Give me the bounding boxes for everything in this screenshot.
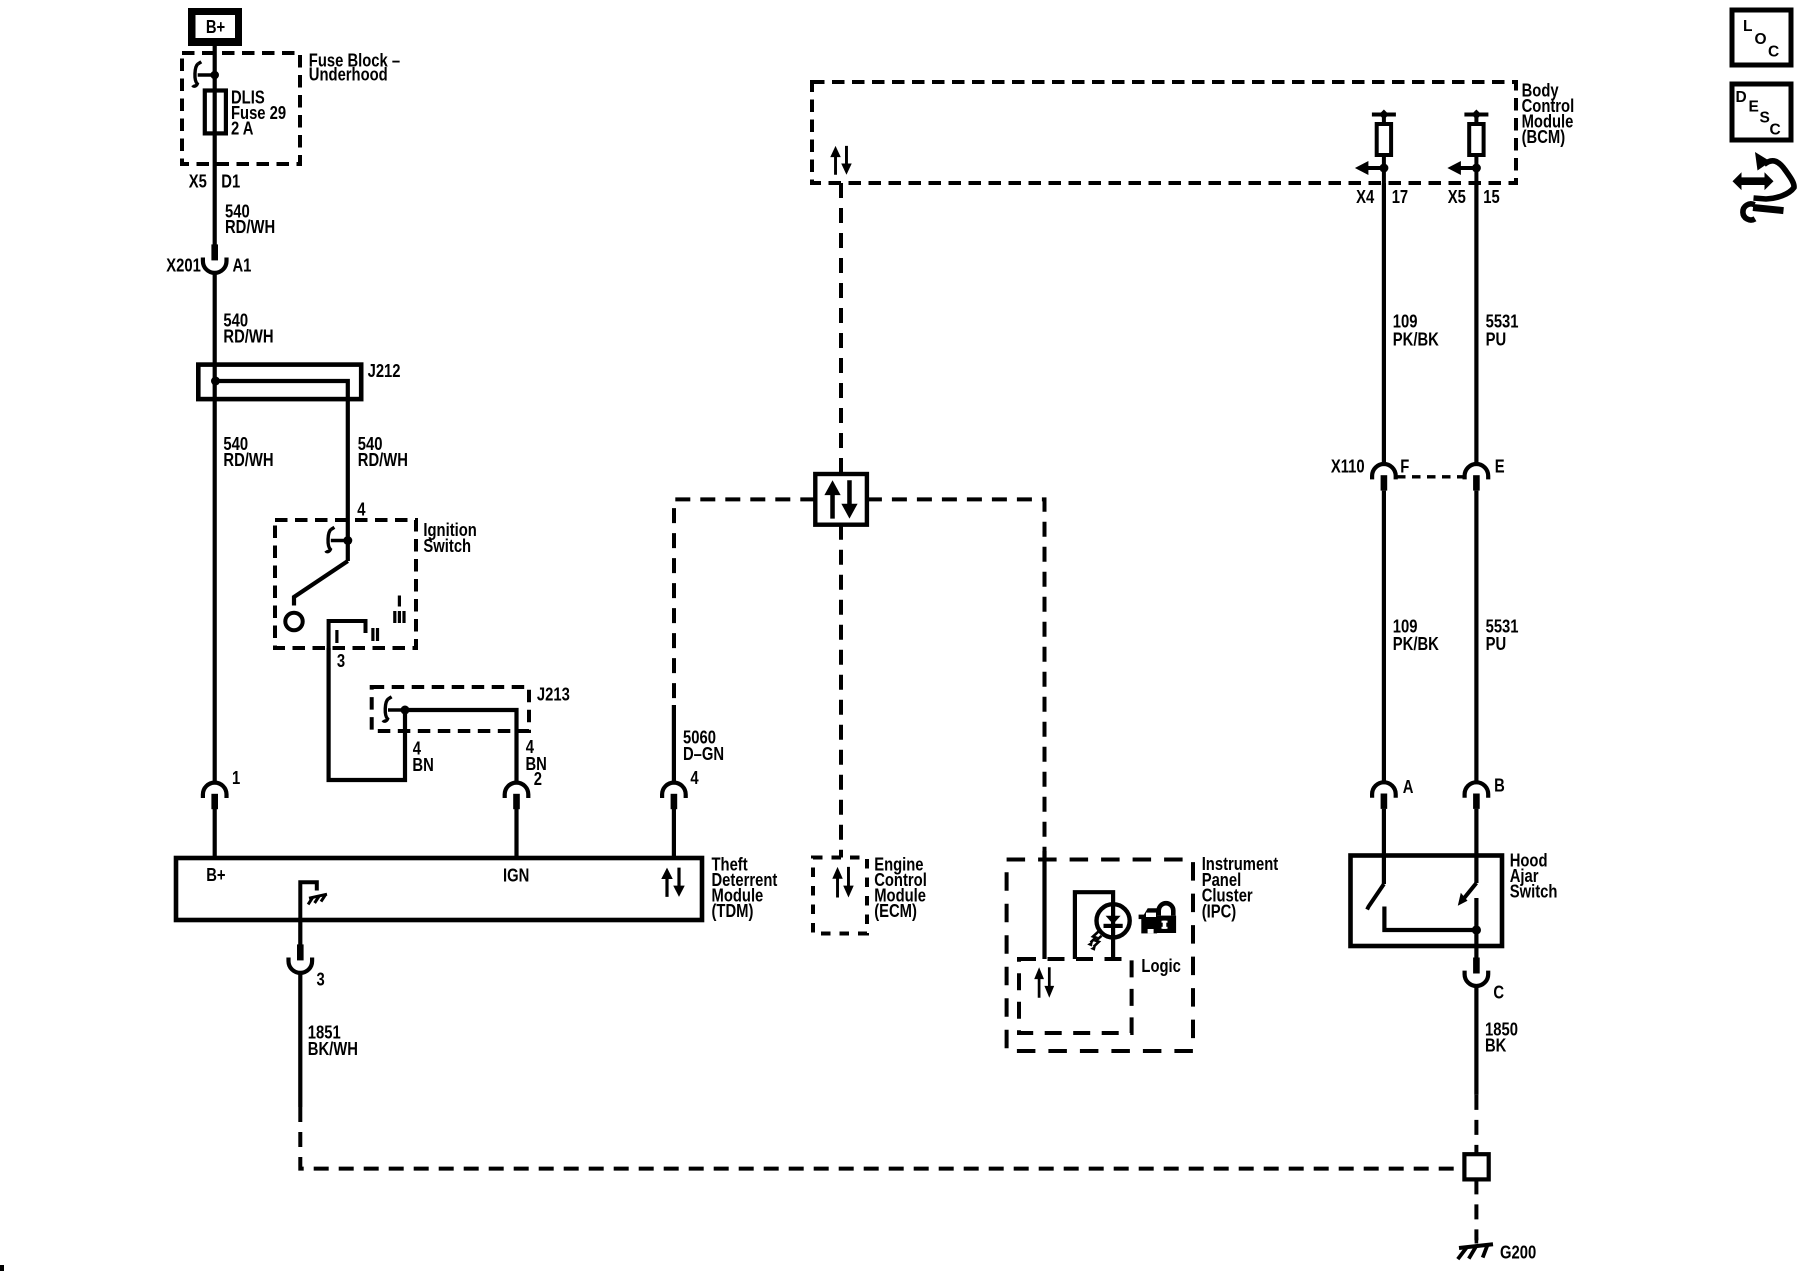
svg-text:G200: G200	[1500, 1242, 1536, 1263]
connector TDM pin 1	[203, 783, 227, 810]
LED branch loop	[1075, 892, 1113, 959]
logic arrows	[1034, 967, 1054, 998]
J213 clip	[383, 697, 405, 721]
svg-text:X4: X4	[1356, 186, 1375, 207]
svg-text:(IPC): (IPC)	[1202, 901, 1237, 922]
inline connector X110 pin F	[1372, 464, 1396, 491]
ignition switch junction dot	[343, 536, 352, 545]
J212 label	[368, 361, 401, 382]
connector hood switch pin B	[1465, 782, 1489, 809]
wire label 109 PK/BK lower	[1393, 616, 1439, 654]
LED diode	[1104, 916, 1123, 928]
svg-text:X5: X5	[1448, 186, 1466, 207]
svg-text:S: S	[1760, 110, 1770, 127]
hood switch left pole wire	[1382, 856, 1386, 884]
TDM terminal label B+	[206, 864, 226, 885]
pin label X5 D1	[189, 171, 240, 192]
ECM serial arrows	[832, 867, 853, 898]
theft deterrent module box	[176, 858, 702, 920]
svg-text:2: 2	[534, 769, 542, 790]
TDM internal chassis ground	[308, 894, 327, 904]
TDM module label	[712, 854, 778, 921]
svg-text:B: B	[1494, 775, 1505, 796]
wire label 4 BN right	[526, 736, 547, 774]
svg-text:X5: X5	[189, 171, 207, 192]
instrument panel cluster dashed box	[1007, 860, 1193, 1052]
svg-text:(BCM): (BCM)	[1522, 126, 1566, 147]
ignition switch wire stub	[346, 520, 350, 561]
wire 540 RD/WH to J212	[213, 273, 217, 782]
legend LOC box	[1732, 10, 1791, 65]
legend DESC box	[1732, 84, 1791, 140]
hood switch common wire	[1474, 898, 1478, 946]
BCM serial arrows	[830, 146, 851, 175]
ignition switch label	[423, 519, 476, 556]
J213 junction dot	[401, 706, 410, 715]
J212 internal bus wire	[216, 381, 348, 520]
wire label 5531 PU lower	[1486, 616, 1519, 654]
TDM terminal label IGN	[503, 865, 529, 886]
BCM label	[1522, 80, 1575, 147]
connector hood switch pin C	[1465, 958, 1489, 987]
svg-text:PK/BK: PK/BK	[1393, 633, 1439, 654]
svg-text:PU: PU	[1486, 633, 1507, 654]
wire from B+ to fuse block	[213, 44, 217, 58]
fuse block label	[309, 50, 400, 85]
fuse clip symbol	[193, 62, 215, 86]
svg-text:BN: BN	[412, 755, 433, 776]
svg-text:Switch: Switch	[1510, 881, 1558, 902]
hood switch right blade closed	[1458, 883, 1477, 906]
svg-text:4: 4	[690, 768, 699, 789]
svg-text:D1: D1	[221, 171, 240, 192]
ignition switch dashed box	[275, 520, 416, 648]
junction dot at fuse clip	[210, 71, 219, 80]
J212 junction dot	[211, 377, 220, 386]
connector TDM pin 2	[505, 783, 529, 810]
pin 3 label TDM	[317, 969, 325, 990]
connector TDM pin 3	[289, 944, 313, 973]
pin 4 label ignition switch	[357, 499, 366, 520]
serial data bus BCM to box	[839, 183, 843, 474]
IPC label	[1202, 854, 1279, 922]
BCM pullup resistor X4-17	[1355, 110, 1396, 184]
hood switch right pole wire	[1474, 856, 1478, 883]
pin labels A B	[1403, 775, 1505, 797]
wire pin1 into TDM	[213, 809, 217, 858]
ground G200 symbol	[1458, 1238, 1493, 1260]
svg-text:B+: B+	[206, 864, 226, 885]
pin 1 label	[232, 768, 240, 789]
wire label 1851 BK/WH	[308, 1022, 358, 1059]
wire label 5531 PU upper	[1486, 311, 1519, 350]
X110 connector labels	[1331, 456, 1505, 477]
wire ignition pin3 to J213	[329, 648, 405, 780]
serial data connector box	[815, 474, 867, 525]
ground splice box	[1464, 1154, 1488, 1179]
inline connector X110 pin E	[1465, 464, 1489, 491]
hood ajar switch label	[1510, 850, 1558, 902]
IPC logic dashed box	[1019, 959, 1132, 1033]
serial data bus right to IPC	[867, 499, 1045, 851]
legend harness icon	[1733, 152, 1795, 220]
svg-text:X201: X201	[166, 255, 201, 276]
wire label 1850 BK	[1485, 1019, 1518, 1056]
ignition switch contact circle	[285, 613, 302, 630]
BCM pin label X5 15	[1448, 186, 1500, 207]
TDM internal ground wire	[300, 882, 317, 920]
wire 5060 D-GN solid	[672, 705, 676, 782]
svg-text:2 A: 2 A	[231, 118, 253, 139]
pin label C	[1493, 982, 1504, 1003]
svg-text:E: E	[1749, 99, 1759, 116]
svg-text:RD/WH: RD/WH	[225, 216, 275, 237]
wire to connector C	[1474, 946, 1478, 958]
body control module dashed box	[812, 82, 1516, 183]
svg-text:F: F	[1400, 456, 1409, 477]
hood switch link wire	[1384, 907, 1476, 931]
ground label G200	[1500, 1242, 1536, 1263]
LED photon arrows	[1087, 932, 1101, 951]
svg-text:RD/WH: RD/WH	[223, 326, 273, 347]
page corner mark	[0, 1265, 4, 1271]
wire B into hood switch	[1474, 809, 1478, 856]
connector TDM pin 4	[662, 783, 686, 810]
svg-text:3: 3	[317, 969, 325, 990]
serial data arrows	[824, 480, 857, 518]
wire 5531 PU upper	[1474, 183, 1478, 463]
wire label 540 RD/WH mid	[223, 310, 273, 347]
svg-text:X110: X110	[1331, 456, 1365, 477]
wire label 4 BN left	[412, 738, 433, 776]
ECM label	[874, 854, 927, 921]
svg-text:IGN: IGN	[503, 865, 529, 886]
wire 1851 BK/WH	[298, 973, 302, 1107]
serial data dashed branch left	[674, 499, 815, 705]
wire 1850 BK	[1474, 986, 1478, 1095]
pin 2 label	[534, 769, 542, 790]
connector label X201 A1	[166, 255, 251, 276]
svg-text:Switch: Switch	[423, 535, 471, 556]
wire label 540 RD/WH upper	[225, 201, 275, 237]
hood ajar switch box	[1351, 856, 1503, 947]
svg-text:1: 1	[232, 768, 240, 789]
splice pack J212	[198, 365, 361, 400]
dashed ground run to G200 splice	[300, 1107, 1464, 1169]
ignition switch clip	[326, 527, 348, 551]
X110 dashed connector link	[1397, 475, 1464, 478]
svg-text:D–GN: D–GN	[683, 743, 724, 764]
BCM pin label X4 17	[1356, 186, 1408, 207]
svg-text:L: L	[1743, 18, 1752, 35]
wire TDM pin 3	[298, 920, 302, 945]
ignition switch blade	[294, 561, 348, 606]
svg-text:15: 15	[1483, 186, 1499, 207]
pin 4 label TDM	[690, 768, 699, 789]
position mark III	[393, 611, 405, 623]
svg-text:(ECM): (ECM)	[874, 901, 917, 922]
dashed wire to ground splice	[1474, 1095, 1478, 1154]
svg-text:PK/BK: PK/BK	[1393, 329, 1439, 350]
svg-text:Underhood: Underhood	[309, 64, 388, 85]
wire pin2 into TDM	[514, 809, 518, 858]
svg-text:(TDM): (TDM)	[712, 900, 754, 921]
J213 bus wire	[405, 710, 517, 782]
svg-text:Logic: Logic	[1141, 956, 1180, 977]
wire label 540 RD/WH left below J212	[223, 433, 273, 470]
svg-text:C: C	[1770, 122, 1781, 139]
pin 3 label ignition	[337, 651, 345, 672]
hood switch junction dot	[1472, 925, 1481, 934]
svg-text:E: E	[1495, 456, 1505, 477]
svg-text:C: C	[1493, 982, 1504, 1003]
svg-text:4: 4	[357, 499, 366, 520]
engine control module dashed box	[813, 858, 867, 934]
battery feed terminal B+	[188, 8, 242, 46]
logic label	[1141, 956, 1180, 977]
wire 109 PK/BK upper	[1382, 183, 1386, 463]
TDM serial arrows	[661, 868, 685, 897]
inline connector X201 pin A1	[203, 244, 227, 273]
wire A into hood switch	[1382, 809, 1386, 856]
svg-text:PU: PU	[1486, 329, 1507, 350]
svg-text:J212: J212	[368, 361, 401, 382]
wire through fuse	[213, 58, 217, 245]
BCM pullup resistor X5-15	[1447, 110, 1488, 184]
svg-text:O: O	[1755, 31, 1767, 48]
position mark I lower	[335, 630, 338, 643]
IPC serial wire	[1042, 851, 1046, 959]
fuse block underhood dashed box	[182, 53, 300, 164]
wire label 109 PK/BK upper	[1393, 311, 1439, 350]
position mark I upper	[398, 596, 401, 607]
serial data bus box to ECM	[839, 525, 843, 858]
fuse value label	[231, 87, 286, 139]
svg-text:3: 3	[337, 651, 345, 672]
wire 109 PK/BK lower	[1382, 491, 1386, 782]
dashed wire splice to ground	[1474, 1179, 1478, 1240]
fuse DLIS Fuse 29 element	[205, 91, 226, 134]
security indicator icon car with lock	[1139, 903, 1177, 933]
wire 5531 PU lower	[1474, 491, 1478, 782]
svg-text:RD/WH: RD/WH	[223, 449, 273, 470]
svg-text:A1: A1	[233, 255, 252, 276]
connector hood switch pin A	[1372, 782, 1396, 809]
hood switch left blade open	[1367, 884, 1384, 910]
svg-text:J213: J213	[537, 684, 570, 705]
ignition position bracket	[329, 621, 366, 648]
svg-text:B+: B+	[206, 16, 226, 37]
svg-text:D: D	[1736, 89, 1747, 106]
svg-text:RD/WH: RD/WH	[358, 449, 408, 470]
wire label 5060 D-GN	[683, 727, 724, 764]
svg-text:17: 17	[1392, 186, 1408, 207]
wire pin4 into TDM	[672, 809, 676, 858]
splice J213 dashed box	[372, 687, 529, 731]
svg-text:C: C	[1768, 44, 1779, 61]
svg-text:BK: BK	[1485, 1035, 1506, 1056]
svg-text:BK/WH: BK/WH	[308, 1038, 358, 1059]
svg-text:A: A	[1403, 776, 1414, 797]
J213 label	[537, 684, 570, 705]
wire label 540 RD/WH right below J212	[358, 433, 408, 470]
position mark II	[371, 628, 379, 641]
LED circle	[1097, 904, 1130, 937]
